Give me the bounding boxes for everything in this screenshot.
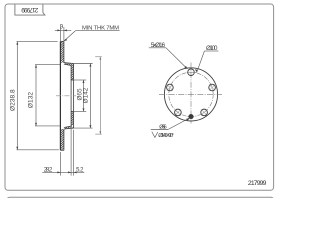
next frame partial (bottom strip) xyxy=(7,197,274,200)
ring bottom edge xyxy=(60,149,64,151)
svg-text:Ø14.5X90°: Ø14.5X90° xyxy=(158,133,174,139)
set screw hole (filled) xyxy=(189,114,194,119)
svg-text:5.2: 5.2 xyxy=(76,167,84,173)
svg-text:Ø142: Ø142 xyxy=(83,87,90,103)
dim 142 xyxy=(89,64,91,129)
ring right face top xyxy=(63,41,65,62)
hatching flange bottom xyxy=(70,109,75,127)
svg-text:Ø238.8: Ø238.8 xyxy=(9,89,16,111)
svg-text:217999: 217999 xyxy=(21,6,38,13)
dim 132 xyxy=(35,65,37,126)
bottom dims xyxy=(59,152,61,176)
flange left face xyxy=(70,65,72,126)
hatching flange top xyxy=(70,64,75,82)
ring top edge xyxy=(60,40,64,42)
bolt holes xyxy=(167,69,216,116)
ring right face bottom xyxy=(63,129,65,150)
dim unnamed outer (faint) xyxy=(95,57,102,134)
hatching ring top xyxy=(58,36,66,68)
dimension texts left view xyxy=(9,24,119,173)
svg-text:217999: 217999 xyxy=(248,180,267,187)
bolt circle xyxy=(169,72,213,116)
title tab top-left xyxy=(15,5,45,16)
hat wall bottom inner xyxy=(64,126,71,127)
dim 9 xyxy=(59,27,61,41)
hat wall top outer xyxy=(64,62,74,65)
svg-text:Ø100: Ø100 xyxy=(206,45,218,52)
bore top edge xyxy=(71,79,74,81)
dim 65 xyxy=(83,80,85,111)
svg-text:Ø6.6: Ø6.6 xyxy=(159,125,167,131)
flange right face xyxy=(73,64,75,129)
hatching hat wall bottom xyxy=(63,127,79,132)
dim 238.8 xyxy=(16,42,18,150)
hat wall top inner xyxy=(64,64,71,65)
bore bottom edge xyxy=(71,110,74,112)
centerlines xyxy=(159,94,222,96)
centerline left view xyxy=(56,95,76,97)
svg-text:5xØ16: 5xØ16 xyxy=(151,42,166,49)
outer circle xyxy=(164,68,217,121)
hatching ring bottom xyxy=(58,124,66,156)
drawing frame xyxy=(5,4,274,190)
hatching hat wall top xyxy=(63,62,79,67)
ring left face (friction surface) xyxy=(59,41,61,150)
labels front view xyxy=(149,48,219,138)
hole center marks xyxy=(167,72,215,115)
arrowheads left view xyxy=(16,29,101,173)
svg-text:28.2: 28.2 xyxy=(44,167,53,173)
svg-text:Ø132: Ø132 xyxy=(28,92,35,108)
hat wall bottom outer xyxy=(64,127,74,130)
svg-text:MIN THK 7MM: MIN THK 7MM xyxy=(82,26,119,32)
min thk leader xyxy=(75,30,119,32)
